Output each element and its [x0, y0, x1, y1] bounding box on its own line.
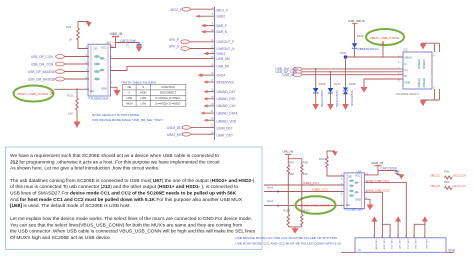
green highlight ellipse VBUS_USB_CONN (left)	[14, 86, 54, 102]
switch marks inside U67	[94, 55, 104, 80]
svg-text:UBAND_CLK: UBAND_CLK	[217, 104, 237, 108]
svg-text:UBAT_DET: UBAT_DET	[217, 133, 233, 137]
node junction rail A	[287, 184, 289, 186]
power net UIM2_45 at U67 VCC	[110, 32, 123, 48]
svg-text:R96: R96	[444, 180, 450, 184]
ground SEL resistor	[73, 122, 80, 129]
SECTION-U68	[235, 150, 465, 246]
svg-text:UIM2_45: UIM2_45	[110, 32, 123, 36]
ground shield top	[420, 44, 427, 50]
wire J12 GND pin to ground	[361, 79, 404, 93]
svg-text:USB_DM_CON: USB_DM_CON	[31, 62, 54, 66]
svg-text:USB lines of SMASD27.For devi: USB lines of SMASD27.For device mode CC1…	[10, 191, 237, 197]
truth table FSUSB42	[121, 80, 186, 106]
svg-text:J12 for programming ,otherwise: J12 for programming ,otherwise it acts a…	[10, 159, 220, 165]
diode D120 RB520S30T1G	[352, 34, 379, 51]
wire left stub	[341, 248, 361, 252]
wire pin6 join	[414, 224, 425, 238]
svg-text:UIM2_CC1_CON: UIM2_CC1_CON	[453, 174, 466, 178]
svg-text:D107: D107	[334, 82, 341, 86]
wire VBUS to J12 pin1	[346, 48, 404, 57]
resistor R95 row	[431, 170, 466, 179]
pin 21 USIM2_DATA wire	[201, 109, 239, 115]
SECTION-BOTTOMCONN	[341, 216, 456, 252]
pin 20 USIM2_CLK wire	[204, 102, 237, 108]
svg-text:TP04: TP04	[340, 51, 347, 55]
pin 18 USIM2_DET wire	[204, 88, 236, 94]
svg-text:D+: D+	[405, 68, 409, 72]
resistor R106 5.1K pulldown rail A	[283, 185, 290, 227]
svg-text:SEL: SEL	[346, 203, 351, 207]
pin 10 BAR_N wire	[201, 28, 228, 34]
pin 22 UBAND_VDD wire	[204, 116, 237, 123]
svg-text:R106: R106	[283, 208, 290, 212]
annotation paragraph 1	[10, 153, 220, 172]
wire U67 D- to connector (stepped)	[111, 66, 215, 70]
svg-text:VBUS_USB_CONN: VBUS_USB_CONN	[370, 36, 400, 40]
svg-text:of this mux is connected To us: of this mux is connected To usb connecto…	[10, 184, 238, 190]
pin numbers U67	[86, 44, 115, 90]
svg-text:UIM_DAT: UIM_DAT	[425, 239, 428, 249]
svg-text:SHIELD4: SHIELD4	[419, 59, 421, 69]
svg-text:USB_DM_BASE58: USB_DM_BASE58	[28, 77, 55, 81]
svg-text:USB_ID: USB_ID	[283, 73, 295, 77]
connector J12 body	[396, 48, 435, 96]
wire R23 to OE pin	[78, 40, 89, 49]
svg-text:USIM_DET: USIM_DET	[167, 126, 183, 130]
svg-text:BAR_P: BAR_P	[217, 24, 227, 28]
svg-text:SHD3: SHD3	[217, 52, 226, 56]
off-page USB_ID	[283, 73, 404, 77]
svg-text:1u: 1u	[126, 43, 130, 47]
svg-text:D108: D108	[349, 82, 356, 86]
svg-text:SHIELD1: SHIELD1	[419, 77, 421, 87]
svg-text:ESD9L5.0ST5G: ESD9L5.0ST5G	[320, 90, 323, 107]
resistor R98 56K pullup rail B	[301, 159, 309, 192]
wire pin1 + power arrow	[371, 216, 377, 238]
svg-text:RB520S30T1G: RB520S30T1G	[358, 47, 380, 51]
node GND alias 1	[267, 185, 279, 192]
svg-text:UBAND_DET: UBAND_DET	[217, 90, 236, 94]
ground U67 GND pin	[111, 87, 121, 96]
svg-text:ID: ID	[405, 74, 408, 78]
svg-text:D+=HSD2+,D-=HSD2-: D+=HSD2+,D-=HSD2-	[156, 103, 181, 106]
svg-text:USB2_CC2: USB2_CC2	[312, 187, 328, 191]
svg-text:MIC2_P: MIC2_P	[171, 8, 183, 12]
svg-text:R95: R95	[444, 170, 450, 174]
svg-text:UBAND_DATA: UBAND_DATA	[217, 111, 239, 115]
SECTION-J12	[276, 19, 440, 110]
svg-text:SEL: SEL	[90, 89, 95, 93]
pin numbers bottom connector	[373, 234, 426, 238]
svg-text:OE: OE	[94, 47, 98, 51]
svg-text:USB2_CC1: USB2_CC1	[303, 181, 319, 185]
svg-text:LOW: LOW	[140, 97, 146, 100]
off-page USB_DM_CON	[276, 67, 404, 71]
wire right stub AGND	[446, 249, 456, 253]
svg-text:Let me explain how the device: Let me explain how the device mode works…	[10, 216, 252, 222]
pin 16 SHD4 wire	[198, 71, 226, 77]
ESD diode D106	[312, 68, 326, 110]
note text pullup/pulldown	[235, 236, 342, 246]
SECTION-U67	[14, 22, 215, 129]
svg-text:the USB connector .When USB ca: the USB connector .When USB cable is con…	[10, 229, 256, 235]
ground U68 GND pin	[365, 199, 374, 210]
resistor R101 pulldown on SEL	[67, 89, 78, 121]
wire pin7 + power arrow	[422, 216, 428, 238]
node SEL junction	[76, 88, 78, 90]
off-page connector USB_DM_CON	[31, 62, 89, 66]
svg-text:UIM_GND: UIM_GND	[382, 239, 384, 250]
svg-text:You can see that the select li: You can see that the select lines(VBUS_U…	[10, 222, 242, 228]
green highlight ellipse VBUS_USB_CONN (bottom)	[296, 196, 336, 214]
pin 11 LINEOUT_P wire + off-page SPK_P	[169, 38, 234, 44]
svg-text:SPK_P: SPK_P	[169, 38, 179, 42]
pin 23 USIM_DET off-page	[167, 123, 233, 130]
connector J-edge vertical bus	[214, 7, 216, 140]
svg-text:As shown here. Let me give a b: As shown here. Let me give a brief intro…	[10, 166, 159, 172]
op chip U68 FSUSB42UMX	[341, 169, 369, 211]
svg-text:Gnd: Gnd	[267, 185, 273, 189]
op chip U67 FSUSB42UMX	[88, 40, 112, 100]
svg-text:BAR_N: BAR_N	[217, 30, 228, 34]
wire J12 shield top loop	[421, 43, 440, 52]
wire U68 out CC1	[365, 179, 407, 238]
wire pin2 tall from CC2	[382, 224, 390, 238]
wire J12 shield bottom loop	[420, 89, 440, 106]
svg-text:UIM2_CC2_CON: UIM2_CC2_CON	[453, 184, 466, 188]
svg-text:FSUSB42UMX: FSUSB42UMX	[89, 96, 109, 100]
svg-text:UBAT_DET: UBAT_DET	[167, 133, 183, 137]
wire pin4 + power arrow	[395, 216, 401, 238]
svg-text:TRUTH TABLE FSUSB42: TRUTH TABLE FSUSB42	[121, 80, 157, 84]
off-page connector USB_DP_BASE	[28, 70, 89, 74]
svg-text:Of MUX's high and SC206E act: Of MUX's high and SC206E act as USB devi…	[10, 235, 111, 241]
svg-text:56K: 56K	[289, 172, 294, 176]
svg-text:UIM2_USB_CC1: UIM2_USB_CC1	[366, 179, 390, 183]
svg-text:GND: GND	[405, 80, 411, 84]
svg-text:USB_DP_BASE58: USB_DP_BASE58	[28, 70, 55, 74]
wire SEL net	[54, 88, 89, 90]
svg-text:LINEOUT_P: LINEOUT_P	[217, 40, 235, 44]
svg-text:VBUS_USB_CONN: VBUS_USB_CONN	[17, 92, 48, 96]
ground pulldowns	[288, 227, 302, 234]
pin 8 SHD2 wire	[196, 12, 226, 18]
svg-text:VCC: VCC	[355, 174, 361, 178]
svg-text:We have a requirement such tha: We have a requirement such that SC206E s…	[10, 153, 219, 159]
svg-text:HIGH: HIGH	[140, 92, 146, 95]
annotation paragraph 2	[10, 178, 255, 209]
svg-text:LOW: LOW	[140, 103, 146, 106]
svg-text:UIM2_45: UIM2_45	[283, 150, 294, 154]
pin 7 MIC2_P wire	[171, 6, 229, 12]
svg-text:GND: GND	[101, 87, 107, 91]
svg-text:USB_DP_CON: USB_DP_CON	[31, 55, 53, 59]
svg-text:R98: R98	[303, 160, 309, 164]
svg-text:SHIELD3: SHIELD3	[424, 59, 426, 69]
svg-text:VBUS: VBUS	[405, 55, 412, 59]
svg-text:FSUSB42UMX: FSUSB42UMX	[344, 208, 363, 212]
svg-text:The usb datalines coming from: The usb datalines coming from SC206E is …	[10, 178, 255, 184]
svg-text:UIM2_CC1: UIM2_CC1	[431, 174, 441, 178]
annotation paragraph 3	[10, 216, 256, 241]
capacitor C172 CAP2/10nF	[116, 39, 142, 47]
resistor R107 5.1K pulldown rail B	[301, 192, 311, 227]
svg-text:ESD9L5.0ST5G: ESD9L5.0ST5G	[335, 90, 338, 107]
resistor R23	[66, 25, 79, 42]
svg-text:SPK_N: SPK_N	[169, 45, 180, 49]
wire R103 to U68 OE	[327, 167, 344, 176]
svg-text:J12: J12	[403, 48, 408, 52]
annotation text box border	[6, 147, 263, 250]
resistor R103	[319, 157, 328, 168]
svg-text:D106: D106	[319, 82, 326, 86]
wire U68 out CC2	[365, 188, 390, 224]
svg-text:UIM_CLK: UIM_CLK	[414, 239, 416, 249]
test point TP04	[340, 51, 348, 59]
svg-text:UBAND_RST: UBAND_RST	[217, 97, 236, 101]
svg-text:FUNCTION: FUNCTION	[162, 86, 175, 89]
svg-text:UBAND_VDD: UBAND_VDD	[217, 120, 237, 124]
svg-text:UIM_CC2: UIM_CC2	[390, 239, 392, 249]
svg-text:SHD4: SHD4	[217, 73, 226, 77]
svg-text:USB_DP: USB_DP	[217, 65, 230, 69]
svg-text:USIM_DET: USIM_DET	[217, 126, 233, 130]
svg-text:DISCONNECT: DISCONNECT	[160, 92, 177, 95]
svg-text:GND: GND	[448, 249, 456, 253]
wire U67 D+ to connector	[111, 58, 215, 60]
svg-text:56K: 56K	[303, 172, 308, 176]
svg-text:UIM_CC1: UIM_CC1	[406, 239, 408, 249]
svg-text:R97: R97	[289, 160, 295, 164]
svg-text:R23: R23	[66, 25, 72, 29]
wire CC1 to U68	[264, 184, 344, 186]
svg-text:10K: 10K	[68, 112, 73, 116]
svg-text:USB DEVICE MODE CC1 AND CC2 MU: USB DEVICE MODE CC1 AND CC2 MUST BE PULL…	[235, 236, 338, 240]
svg-text:D120: D120	[357, 34, 364, 38]
node junction rail B	[301, 191, 303, 193]
node GND alias 2	[264, 199, 344, 207]
svg-text:UIM_PWR: UIM_PWR	[374, 239, 376, 250]
svg-text:SHIELD2: SHIELD2	[424, 77, 426, 87]
svg-text:And for host mode CC1 and CC2: And for host mode CC1 and CC2 must be pu…	[10, 197, 243, 203]
svg-text:VBUS_USB_CONN: VBUS_USB_CONN	[299, 204, 331, 208]
power net UIM2_45 at U68 VCC	[365, 161, 384, 175]
wire pin3 join	[389, 224, 391, 238]
pin 13 SHD3 wire	[204, 50, 226, 56]
svg-text:U68: U68	[357, 169, 363, 173]
svg-text:FOR DEVICE MODE MAKE "USB_DR_S: FOR DEVICE MODE MAKE "USB_DR_SEL" HIGH	[92, 118, 162, 122]
svg-text:USB_DM: USB_DM	[217, 57, 231, 61]
svg-text:VCC: VCC	[101, 45, 107, 49]
ESD diode D107	[327, 71, 341, 110]
svg-text:NOTE: DEFAULT IS HOST MODE: NOTE: DEFAULT IS HOST MODE	[92, 113, 139, 117]
svg-text:OE: OE	[348, 174, 352, 178]
svg-text:USB HOST MODE CC1 AND CC2 MUST: USB HOST MODE CC1 AND CC2 MUST BE PULLED…	[235, 242, 342, 246]
SECTION-TEXTBOX	[6, 147, 263, 250]
svg-text:PESD5V0S1BL: PESD5V0S1BL	[350, 90, 353, 107]
svg-text:SHD2: SHD2	[217, 15, 226, 19]
svg-text:R101: R101	[67, 94, 74, 98]
power arrow VCC for R23	[78, 22, 92, 29]
pin 9 BAR_P wire	[201, 22, 227, 28]
pin net names vertical	[374, 239, 428, 250]
off-page connector USB_DP_CON	[31, 55, 89, 59]
svg-text:R103: R103	[319, 157, 326, 161]
pin 15 USB_DP	[211, 62, 230, 68]
svg-text:UIM_VPP: UIM_VPP	[398, 239, 400, 249]
green highlight ellipse VBUS_USB_CONN (top)	[366, 29, 404, 57]
pin 12 LINEOUT_N wire + off-page SPK_N	[169, 45, 235, 51]
off-page connector USB_DM_BASE	[28, 77, 89, 81]
svg-text:HIGH: HIGH	[126, 103, 132, 106]
svg-text:UIM2_CC2: UIM2_CC2	[431, 184, 441, 188]
svg-text:RESERVED: RESERVED	[217, 80, 235, 84]
power net UIM2_45 pullups	[283, 150, 302, 159]
svg-text:[U68] is used. The default mod: [U68] is used. The default mode of SC206…	[10, 203, 131, 209]
svg-text:UIM2_45: UIM2_45	[371, 161, 384, 165]
pin 17 RESERVED	[204, 78, 235, 84]
svg-text:USB_VBUS: USB_VBUS	[348, 19, 365, 23]
svg-text:LINEOUT_N: LINEOUT_N	[217, 47, 236, 51]
wire CC2 to U68	[264, 191, 344, 193]
svg-text:Gnd: Gnd	[267, 199, 273, 203]
pin 24 UBAT_DET off-page	[167, 130, 233, 137]
off-page USB_DP_CON	[276, 70, 404, 74]
svg-text:OE: OE	[127, 86, 131, 89]
svg-text:D+=HSD1+,D-=HSD1-: D+=HSD1+,D-=HSD1-	[156, 97, 181, 100]
svg-text:LOW: LOW	[126, 97, 132, 100]
svg-text:UIM2_USB_CC2: UIM2_USB_CC2	[366, 188, 390, 192]
resistor R96 row	[431, 180, 466, 189]
SECTION-CONNECTOR	[167, 6, 238, 140]
pin 14 USB_DM	[211, 55, 231, 61]
resistor R97 56K pullup rail A	[287, 159, 295, 185]
power net USB_VBUS	[348, 19, 365, 43]
svg-text:U67: U67	[106, 40, 112, 44]
svg-text:CAP2/10nF: CAP2/10nF	[381, 167, 398, 171]
svg-text:R107: R107	[303, 208, 310, 212]
capacitor CAP2/10nF at U68	[378, 167, 404, 179]
svg-text:10118194-0001LF: 10118194-0001LF	[396, 92, 419, 96]
svg-text:D-: D-	[405, 62, 408, 66]
svg-text:MIC2_P: MIC2_P	[217, 8, 229, 12]
pin 19 USIM2_RST wire	[204, 95, 236, 101]
connector J13 body	[355, 238, 446, 253]
svg-text:1K: 1K	[69, 38, 73, 42]
power arrow for R103	[327, 151, 338, 157]
svg-text:GND: GND	[355, 198, 361, 202]
note text host mode	[92, 113, 162, 122]
ground capacitor	[136, 47, 143, 53]
ESD diode D108	[342, 57, 356, 110]
